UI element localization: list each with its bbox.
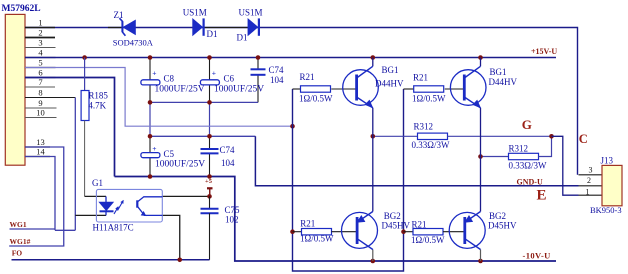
svg-text:1: 1 [38,17,42,27]
svg-text:C74: C74 [269,65,285,75]
svg-text:+: + [152,144,156,153]
svg-text:0.33Ω/3W: 0.33Ω/3W [509,161,547,171]
svg-text:C: C [579,132,588,146]
svg-text:BG1: BG1 [382,65,399,75]
svg-text:R21: R21 [300,219,315,229]
svg-text:1Ω/0.5W: 1Ω/0.5W [412,94,446,104]
svg-text:6: 6 [38,67,42,77]
svg-text:FO: FO [12,249,23,258]
svg-text:D1: D1 [207,29,218,39]
svg-text:SOD4730A: SOD4730A [113,37,154,47]
svg-text:3: 3 [38,37,42,47]
svg-text:1Ω/0.5W: 1Ω/0.5W [411,235,445,245]
svg-text:104: 104 [221,158,235,168]
svg-text:14: 14 [36,147,45,157]
svg-text:10: 10 [36,107,45,117]
svg-text:C6: C6 [224,74,235,84]
svg-text:+: + [152,69,156,78]
svg-text:WG1: WG1 [10,220,27,229]
svg-text:US1M: US1M [239,8,263,18]
svg-text:1: 1 [586,188,590,197]
svg-text:D44HV: D44HV [489,77,518,87]
svg-text:8: 8 [38,87,42,97]
svg-text:-10V-U: -10V-U [523,251,551,261]
svg-text:1000UF/25V: 1000UF/25V [155,160,205,170]
svg-text:D1: D1 [237,33,248,43]
svg-text:R21: R21 [412,220,427,230]
svg-text:D44HV: D44HV [375,79,404,89]
svg-text:104: 104 [270,75,284,85]
svg-text:4.7K: 4.7K [88,100,106,110]
svg-text:G: G [522,117,532,132]
svg-text:H11A817C: H11A817C [93,223,134,233]
svg-text:C75: C75 [225,205,241,215]
svg-text:0.33Ω/3W: 0.33Ω/3W [412,140,450,150]
svg-text:BG1: BG1 [490,67,507,77]
svg-text:2: 2 [38,27,42,37]
svg-text:G1: G1 [92,178,103,188]
svg-text:GND-U: GND-U [517,177,543,186]
svg-text:R21: R21 [413,73,428,83]
svg-text:C74: C74 [220,145,236,155]
svg-text:R21: R21 [300,72,315,82]
svg-text:E: E [537,187,547,203]
svg-text:+: + [212,69,216,78]
svg-text:3: 3 [589,166,593,175]
svg-text:R185: R185 [88,90,108,100]
svg-text:1Ω/0.5W: 1Ω/0.5W [300,234,334,244]
svg-text:WG1#: WG1# [10,237,31,246]
svg-text:US1M: US1M [183,8,207,18]
svg-text:1000UF/25V: 1000UF/25V [214,84,264,94]
svg-text:R312: R312 [509,144,529,154]
svg-text:Z1: Z1 [114,10,124,20]
svg-text:D45HV: D45HV [382,220,411,230]
svg-text:1Ω/0.5W: 1Ω/0.5W [299,93,333,103]
svg-text:BK950-3: BK950-3 [590,205,622,215]
svg-text:5: 5 [38,57,42,67]
svg-text:C8: C8 [164,74,175,84]
svg-text:9: 9 [38,98,42,108]
svg-text:1000UF/25V: 1000UF/25V [155,84,205,94]
svg-text:C5: C5 [164,149,175,159]
svg-text:+5: +5 [205,178,213,185]
svg-text:R312: R312 [414,122,434,132]
svg-text:M57962L: M57962L [2,4,41,14]
svg-text:D45HV: D45HV [488,220,517,230]
svg-text:13: 13 [36,137,45,147]
svg-text:4: 4 [38,47,43,57]
svg-text:2: 2 [587,176,591,185]
svg-text:J13: J13 [601,156,614,166]
svg-text:+15V-U: +15V-U [531,47,557,56]
svg-text:102: 102 [225,215,239,225]
